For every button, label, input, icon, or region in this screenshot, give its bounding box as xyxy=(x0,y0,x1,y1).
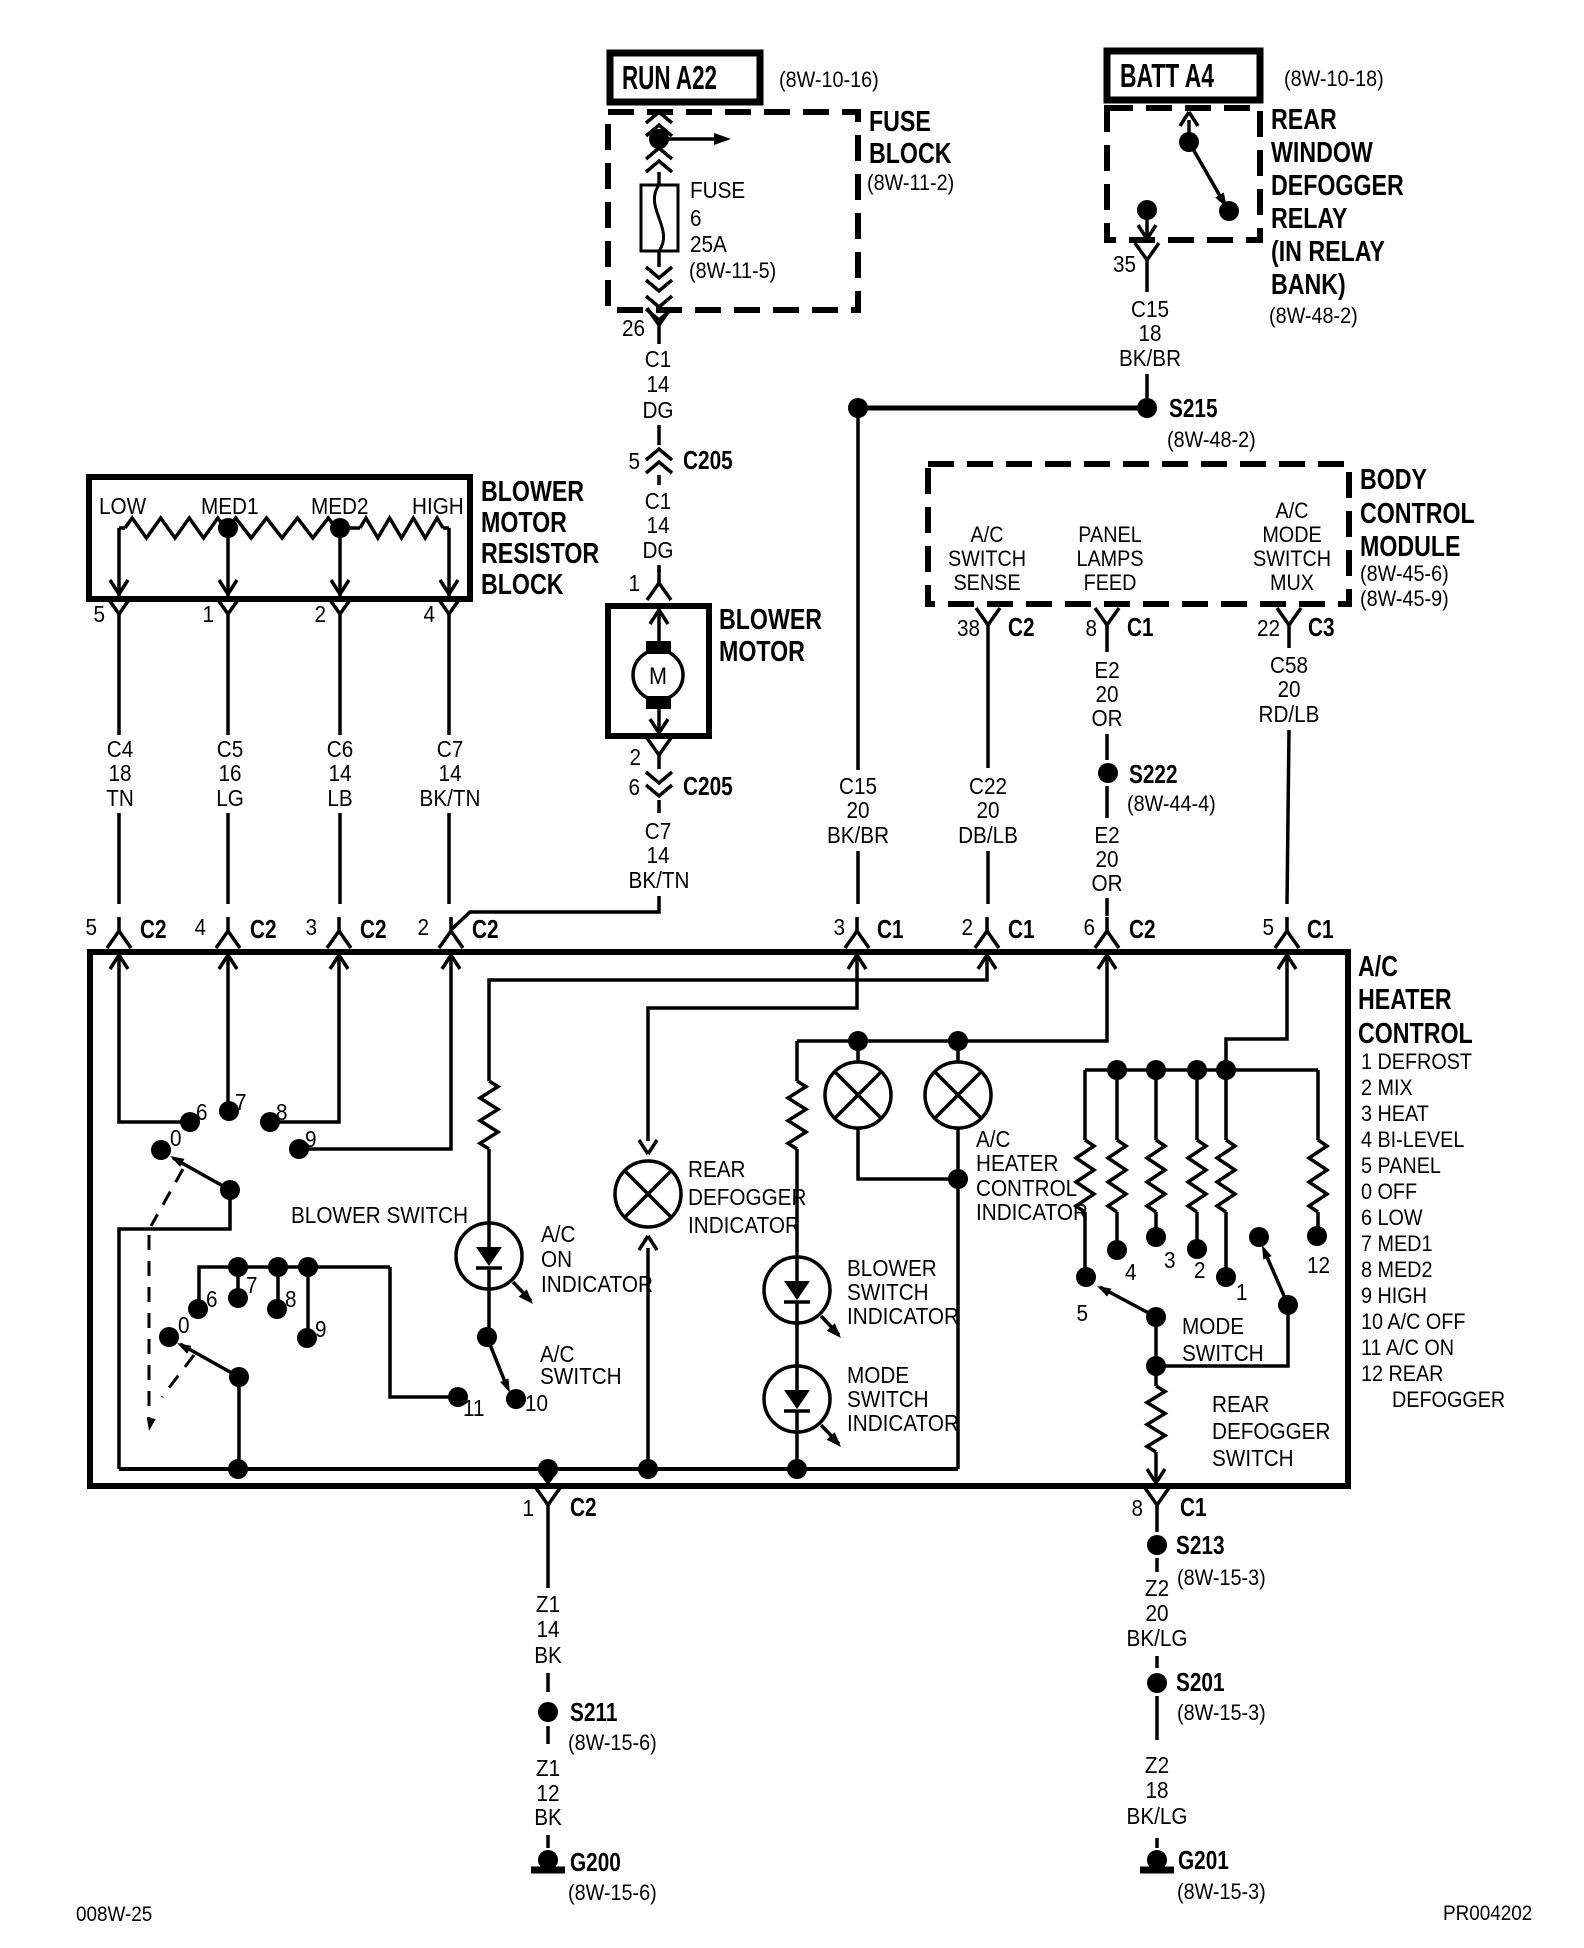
svg-text:S201: S201 xyxy=(1176,1668,1225,1697)
lamp rear defogger indicator left xyxy=(825,1062,891,1128)
svg-text:HEATER: HEATER xyxy=(976,1150,1058,1176)
svg-text:14: 14 xyxy=(646,512,669,538)
stub to contact 7 lower xyxy=(236,1267,240,1292)
contact 5 xyxy=(1076,1267,1096,1287)
wire to contact 1 xyxy=(1224,1212,1228,1277)
wire S215 bus xyxy=(858,406,1147,411)
svg-text:6 LOW: 6 LOW xyxy=(1361,1206,1423,1230)
svg-text:(8W-45-9): (8W-45-9) xyxy=(1360,587,1449,611)
svg-text:A/C: A/C xyxy=(976,1126,1011,1152)
svg-text:INDICATOR: INDICATOR xyxy=(976,1199,1088,1225)
fuse 6 25A xyxy=(641,185,678,251)
wire pin5 C2 to contact 6 upper xyxy=(119,975,181,1122)
svg-text:10 A/C OFF: 10 A/C OFF xyxy=(1361,1310,1465,1334)
svg-text:8: 8 xyxy=(1131,1495,1143,1521)
svg-text:(8W-15-3): (8W-15-3) xyxy=(1177,1880,1266,1904)
ground G201 xyxy=(1140,1867,1174,1874)
wire lamp1 bottom to lamp2 wire xyxy=(858,1128,949,1179)
svg-text:LOW: LOW xyxy=(99,493,146,519)
wire to contact 5 xyxy=(1083,1212,1087,1277)
svg-text:RD/LB: RD/LB xyxy=(1259,701,1320,727)
wire feed to lamp2 xyxy=(956,1041,960,1062)
pole 2 contact bus xyxy=(199,1267,390,1303)
resistor MED1-MED2 xyxy=(228,518,336,538)
contact 11 xyxy=(448,1387,468,1407)
contact 9 upper xyxy=(289,1139,309,1159)
svg-text:9 HIGH: 9 HIGH xyxy=(1361,1284,1427,1308)
mode switch pivot xyxy=(1146,1307,1166,1327)
mode resistor bus xyxy=(1085,1068,1318,1072)
svg-text:C2: C2 xyxy=(250,915,277,944)
svg-text:(8W-15-3): (8W-15-3) xyxy=(1177,1701,1266,1725)
svg-text:1: 1 xyxy=(1236,1279,1248,1305)
svg-text:REAR: REAR xyxy=(1271,102,1337,135)
svg-text:7 MED1: 7 MED1 xyxy=(1361,1232,1432,1256)
svg-text:20: 20 xyxy=(846,797,869,823)
node pole2 bus b xyxy=(268,1257,288,1277)
contact 8 upper xyxy=(260,1112,280,1132)
svg-text:20: 20 xyxy=(1277,676,1300,702)
wire pin3 C1 to rear defogger indicator xyxy=(648,975,857,1141)
connector chevrons fuse block exit xyxy=(646,267,672,278)
wire junction to rear defogger resistor xyxy=(1154,1366,1158,1386)
wire indicator to bottom bus xyxy=(646,1248,650,1469)
svg-text:C1: C1 xyxy=(1008,915,1035,944)
svg-text:SWITCH: SWITCH xyxy=(847,1386,929,1412)
fuse block dashed outline xyxy=(608,112,858,310)
svg-text:(8W-15-6): (8W-15-6) xyxy=(568,1881,657,1905)
svg-text:SENSE: SENSE xyxy=(953,571,1020,595)
connector chevron below indicator xyxy=(639,1236,648,1250)
resistor LOW-MED1 xyxy=(119,526,125,530)
svg-text:BK: BK xyxy=(534,1804,562,1830)
svg-text:C2: C2 xyxy=(472,915,499,944)
junction node at left of S215 bus xyxy=(848,398,868,418)
blower motor resistor block box xyxy=(89,477,470,599)
svg-text:1 DEFROST: 1 DEFROST xyxy=(1361,1050,1472,1074)
svg-text:BK/BR: BK/BR xyxy=(827,822,889,848)
svg-text:LG: LG xyxy=(216,785,244,811)
svg-text:MUX: MUX xyxy=(1270,571,1314,595)
svg-text:BK/LG: BK/LG xyxy=(1127,1625,1188,1651)
svg-text:(8W-15-3): (8W-15-3) xyxy=(1177,1566,1266,1590)
wire feed to lamp1 xyxy=(856,1041,860,1062)
wire to contact 4 xyxy=(1115,1212,1119,1250)
wire lamp bus to indicator resistor xyxy=(795,1041,799,1081)
contact 4 xyxy=(1107,1240,1127,1260)
node LED chain on bottom bus xyxy=(787,1459,807,1479)
svg-text:8: 8 xyxy=(1085,615,1097,641)
svg-text:1: 1 xyxy=(522,1495,534,1521)
entry arrows at top of A/C heater control xyxy=(117,952,121,975)
svg-text:(8W-48-2): (8W-48-2) xyxy=(1269,304,1358,328)
resistor mode 1 xyxy=(1224,1070,1228,1140)
wire pole2 bus to contact 11 xyxy=(390,1267,449,1397)
svg-text:CONTROL: CONTROL xyxy=(1358,1016,1473,1049)
wire pin3 C2 to contact 8 upper xyxy=(279,975,339,1122)
contact 2 xyxy=(1187,1239,1207,1259)
svg-text:LB: LB xyxy=(327,785,352,811)
svg-text:DEFOGGER: DEFOGGER xyxy=(1271,168,1404,201)
svg-text:BLOCK: BLOCK xyxy=(869,136,951,169)
svg-text:SWITCH: SWITCH xyxy=(1182,1340,1264,1366)
svg-text:C2: C2 xyxy=(570,1493,597,1522)
wire junction to fuse xyxy=(657,172,661,185)
resistor rear defogger switch xyxy=(1147,1386,1165,1452)
svg-text:1: 1 xyxy=(202,601,214,627)
svg-text:FEED: FEED xyxy=(1084,571,1137,595)
wire mode pivot to junction xyxy=(1154,1317,1158,1366)
svg-text:BANK): BANK) xyxy=(1271,267,1346,300)
power feed BATT A4 box xyxy=(1107,51,1260,100)
svg-text:(8W-15-6): (8W-15-6) xyxy=(568,1731,657,1755)
svg-text:6: 6 xyxy=(196,1099,208,1125)
node MED2 xyxy=(330,518,350,538)
rear window defogger relay dashed outline xyxy=(1107,108,1260,240)
contact 6 lower xyxy=(188,1299,208,1319)
splice S211 xyxy=(538,1702,558,1722)
svg-text:RELAY: RELAY xyxy=(1271,201,1348,234)
junction node in fuse block with feed arrow xyxy=(649,129,669,149)
blower switch indicator LED xyxy=(764,1257,830,1323)
wire label C1 14 DG below C205 xyxy=(657,475,661,485)
svg-text:CONTROL: CONTROL xyxy=(976,1175,1077,1201)
svg-text:18: 18 xyxy=(108,760,131,786)
svg-text:4: 4 xyxy=(1125,1259,1137,1285)
svg-text:REAR: REAR xyxy=(1212,1391,1270,1417)
contact 9 lower xyxy=(297,1328,317,1348)
wire mode indicator to bottom bus xyxy=(795,1432,799,1469)
svg-text:OR: OR xyxy=(1091,705,1122,731)
svg-text:BLOCK: BLOCK xyxy=(481,567,563,600)
A/C heater control ground bus xyxy=(119,1467,958,1471)
wire pin2 C2 to contact 9 upper xyxy=(308,975,451,1149)
wire label Z1 12 BK xyxy=(546,1726,550,1744)
svg-text:10: 10 xyxy=(525,1390,548,1416)
svg-text:008W-25: 008W-25 xyxy=(76,1903,152,1926)
wire label C15 20 BK/BR xyxy=(856,418,860,770)
connector chevrons at RUN A22 into fuse block xyxy=(646,112,672,123)
svg-text:C1: C1 xyxy=(1307,915,1334,944)
svg-text:A/C: A/C xyxy=(971,523,1004,547)
svg-text:14: 14 xyxy=(646,371,669,397)
svg-text:C22: C22 xyxy=(969,773,1007,799)
svg-text:7: 7 xyxy=(246,1272,258,1298)
wire label C6 14 LB xyxy=(338,628,342,735)
svg-text:12 REAR: 12 REAR xyxy=(1361,1362,1443,1386)
svg-text:12: 12 xyxy=(1307,1252,1330,1278)
svg-text:C4: C4 xyxy=(107,736,133,762)
blower switch pole 1 arm xyxy=(173,1158,230,1190)
svg-text:25A: 25A xyxy=(690,231,727,257)
mode switch arm xyxy=(1100,1287,1156,1317)
wire A/C mode switch mux C58 20 RD/LB xyxy=(1287,639,1291,648)
wire bus to pin1 exit xyxy=(546,1469,550,1486)
arrow into blower motor xyxy=(657,606,661,641)
svg-text:(8W-10-16): (8W-10-16) xyxy=(779,68,879,92)
svg-text:G201: G201 xyxy=(1178,1846,1229,1875)
wire E2 20 OR lower xyxy=(1105,786,1109,818)
svg-text:C2: C2 xyxy=(140,915,167,944)
svg-text:G200: G200 xyxy=(570,1848,621,1877)
pivot node pole 2 xyxy=(229,1367,249,1387)
rear defogger switch contact xyxy=(1249,1227,1269,1247)
svg-text:9: 9 xyxy=(315,1316,327,1342)
svg-text:BLOWER: BLOWER xyxy=(719,602,822,635)
svg-text:35: 35 xyxy=(1113,251,1136,277)
splice S222 xyxy=(1098,763,1118,783)
svg-text:S215: S215 xyxy=(1169,394,1218,423)
svg-text:BLOWER: BLOWER xyxy=(847,1255,937,1281)
svg-text:A/C: A/C xyxy=(1358,949,1398,982)
svg-text:SWITCH: SWITCH xyxy=(847,1279,929,1305)
splice S215 xyxy=(1137,398,1157,418)
svg-text:C1: C1 xyxy=(877,915,904,944)
wire label C1 14 DG xyxy=(657,339,661,344)
wire resistor to blower switch indicator xyxy=(795,1149,799,1257)
splice S213 xyxy=(1147,1535,1167,1555)
svg-text:C6: C6 xyxy=(327,736,353,762)
wire panel lamps feed E2 20 OR upper xyxy=(1105,639,1109,652)
svg-text:WINDOW: WINDOW xyxy=(1271,135,1373,168)
svg-text:26: 26 xyxy=(622,315,645,341)
A/C heater control box xyxy=(90,952,1348,1486)
svg-text:C1: C1 xyxy=(645,346,671,372)
wire label C7 14 BK/TN left xyxy=(447,628,451,735)
svg-text:MOTOR: MOTOR xyxy=(719,634,805,667)
relay output contact xyxy=(1137,200,1157,220)
wire pin4 C2 to contact 7 upper xyxy=(226,975,230,1103)
wire to contact 2 xyxy=(1195,1212,1199,1249)
svg-text:(8W-45-6): (8W-45-6) xyxy=(1360,562,1449,586)
svg-text:20: 20 xyxy=(976,797,999,823)
wire fuse to fuse block exit xyxy=(657,251,661,267)
body control module dashed outline xyxy=(928,464,1349,604)
svg-text:DB/LB: DB/LB xyxy=(958,822,1018,848)
svg-text:C2: C2 xyxy=(1008,613,1035,642)
svg-text:BK/TN: BK/TN xyxy=(420,785,481,811)
wire A/C switch sense C22 20 DB/LB xyxy=(986,639,990,768)
svg-text:8: 8 xyxy=(285,1286,297,1312)
stub to contact 9 lower xyxy=(306,1267,310,1332)
svg-text:SWITCH: SWITCH xyxy=(540,1363,622,1389)
svg-text:INDICATOR: INDICATOR xyxy=(541,1271,653,1297)
svg-text:14: 14 xyxy=(438,760,461,786)
contact 7 upper xyxy=(219,1101,239,1121)
svg-text:BODY: BODY xyxy=(1360,462,1427,495)
svg-text:3: 3 xyxy=(833,914,845,940)
svg-text:MODE: MODE xyxy=(1262,523,1321,547)
svg-text:1: 1 xyxy=(628,570,640,596)
svg-text:3: 3 xyxy=(305,914,317,940)
svg-text:C205: C205 xyxy=(683,772,733,801)
resistor mode 4 xyxy=(1115,1070,1119,1140)
wire pin2 C1 to A/C resistor xyxy=(489,975,987,1081)
svg-text:ON: ON xyxy=(541,1246,572,1272)
svg-text:8: 8 xyxy=(276,1099,288,1125)
rear defogger switch pivot xyxy=(1278,1295,1298,1315)
wire motor to box exit with arrow xyxy=(657,709,661,736)
svg-text:S211: S211 xyxy=(570,1698,617,1727)
resistor A/C on indicator feed xyxy=(480,1081,498,1149)
relay contact arm xyxy=(1187,120,1191,140)
svg-text:6: 6 xyxy=(628,774,640,800)
svg-text:BK/LG: BK/LG xyxy=(1127,1803,1188,1829)
svg-text:DG: DG xyxy=(642,397,673,423)
contact 6 upper xyxy=(180,1112,200,1132)
wire to contact 3 xyxy=(1154,1212,1158,1237)
svg-text:INDICATOR: INDICATOR xyxy=(847,1410,959,1436)
svg-text:HEATER: HEATER xyxy=(1358,982,1452,1015)
svg-text:MODULE: MODULE xyxy=(1360,529,1460,562)
svg-text:6: 6 xyxy=(206,1286,218,1312)
svg-text:5: 5 xyxy=(85,914,97,940)
svg-text:3 HEAT: 3 HEAT xyxy=(1361,1102,1429,1126)
svg-text:C15: C15 xyxy=(1131,296,1169,322)
wire between indicator LEDs xyxy=(795,1323,799,1366)
svg-text:MOTOR: MOTOR xyxy=(481,505,567,538)
svg-text:DEFOGGER: DEFOGGER xyxy=(1212,1418,1330,1444)
svg-text:5 PANEL: 5 PANEL xyxy=(1361,1154,1441,1178)
stub to contact 8 lower xyxy=(276,1267,280,1303)
wire label Z2 20 BK/LG xyxy=(1155,1558,1159,1572)
contact 0 upper xyxy=(151,1140,171,1160)
svg-text:S222: S222 xyxy=(1129,760,1178,789)
contact 10 xyxy=(506,1389,526,1409)
svg-text:5: 5 xyxy=(93,601,105,627)
svg-text:22: 22 xyxy=(1257,615,1280,641)
svg-text:E2: E2 xyxy=(1094,657,1119,683)
svg-text:MED2: MED2 xyxy=(311,493,369,519)
svg-text:BLOWER: BLOWER xyxy=(481,474,584,507)
svg-text:C1: C1 xyxy=(645,488,671,514)
wire label C15 18 BK/BR xyxy=(1145,274,1149,292)
svg-text:4: 4 xyxy=(194,914,206,940)
svg-text:DEFOGGER: DEFOGGER xyxy=(1392,1388,1505,1412)
svg-text:C5: C5 xyxy=(217,736,243,762)
svg-text:5: 5 xyxy=(1076,1300,1088,1326)
svg-text:0: 0 xyxy=(170,1125,182,1151)
blower switch pole 2 arm xyxy=(180,1344,239,1377)
wire taps to block pins xyxy=(117,528,121,596)
svg-text:OR: OR xyxy=(1091,870,1122,896)
svg-text:14: 14 xyxy=(646,842,669,868)
svg-text:PR004202: PR004202 xyxy=(1443,1902,1532,1925)
svg-text:C3: C3 xyxy=(1308,613,1335,642)
svg-text:2: 2 xyxy=(961,914,973,940)
svg-text:M: M xyxy=(649,662,667,689)
svg-text:C7: C7 xyxy=(645,818,671,844)
resistor indicator chain xyxy=(788,1081,806,1149)
wire rear defogger resistor to box exit xyxy=(1154,1452,1158,1486)
svg-text:0: 0 xyxy=(178,1312,190,1338)
svg-text:C1: C1 xyxy=(1127,613,1154,642)
svg-text:2 MIX: 2 MIX xyxy=(1361,1076,1413,1100)
svg-text:2: 2 xyxy=(629,744,641,770)
svg-text:4 BI-LEVEL: 4 BI-LEVEL xyxy=(1361,1128,1464,1152)
resistor MED2-HIGH xyxy=(340,526,360,530)
node pole2 bus c xyxy=(298,1257,318,1277)
svg-text:A/C: A/C xyxy=(1276,499,1309,523)
node mode bus 4 xyxy=(1216,1060,1236,1080)
svg-text:FUSE: FUSE xyxy=(690,177,745,203)
svg-text:18: 18 xyxy=(1145,1777,1168,1803)
A/C switch contact node xyxy=(477,1327,497,1347)
svg-text:7: 7 xyxy=(235,1089,247,1115)
svg-text:2: 2 xyxy=(1194,1257,1206,1283)
svg-text:4: 4 xyxy=(423,601,435,627)
node indicator on bottom bus xyxy=(638,1459,658,1479)
node MED1 xyxy=(218,518,238,538)
mode switch junction node xyxy=(1146,1356,1166,1376)
wire pole1 pivot to bottom bus xyxy=(119,1190,230,1469)
A/C ON indicator LED xyxy=(456,1223,522,1289)
svg-text:C2: C2 xyxy=(360,915,387,944)
wire pin5 C1 to mode bus xyxy=(1226,975,1287,1070)
node lamp junction xyxy=(948,1169,968,1189)
svg-text:14: 14 xyxy=(328,760,351,786)
wire LED to A/C switch xyxy=(487,1289,491,1337)
svg-text:PANEL: PANEL xyxy=(1078,523,1141,547)
svg-text:A/C: A/C xyxy=(541,1221,576,1247)
svg-text:S213: S213 xyxy=(1176,1531,1225,1560)
node mode bus 3 xyxy=(1187,1060,1207,1080)
svg-text:(IN RELAY: (IN RELAY xyxy=(1271,234,1385,267)
svg-text:INDICATOR: INDICATOR xyxy=(847,1303,959,1329)
svg-text:11 A/C ON: 11 A/C ON xyxy=(1361,1336,1454,1360)
contact 12 xyxy=(1307,1226,1327,1246)
wire blower motor return to pin 2 C2 xyxy=(452,896,659,929)
svg-text:CONTROL: CONTROL xyxy=(1360,496,1475,529)
wire pole2 pivot to bottom bus xyxy=(237,1377,241,1469)
wire junction to rear defogger switch arm xyxy=(1156,1305,1288,1366)
svg-text:C205: C205 xyxy=(683,446,733,475)
svg-text:16: 16 xyxy=(218,760,241,786)
svg-text:BK/BR: BK/BR xyxy=(1119,345,1181,371)
wire label C7 14 BK/TN xyxy=(657,800,661,813)
splice S201 xyxy=(1147,1673,1167,1693)
svg-text:11: 11 xyxy=(463,1395,484,1421)
svg-text:2: 2 xyxy=(314,601,326,627)
svg-text:E2: E2 xyxy=(1094,822,1119,848)
svg-text:(8W-11-2): (8W-11-2) xyxy=(867,171,954,195)
svg-text:DG: DG xyxy=(642,537,673,563)
mechanical linkage dashed xyxy=(151,1169,183,1226)
svg-text:BLOWER SWITCH: BLOWER SWITCH xyxy=(291,1202,468,1228)
svg-text:14: 14 xyxy=(536,1616,559,1642)
wire resistor to A/C ON indicator xyxy=(487,1149,491,1223)
contact 0 lower xyxy=(159,1327,179,1347)
svg-text:MODE: MODE xyxy=(1182,1313,1244,1339)
rear defogger switch arm xyxy=(1264,1250,1288,1305)
node mode bus 2 xyxy=(1146,1060,1166,1080)
svg-text:3: 3 xyxy=(1164,1247,1176,1273)
svg-text:6: 6 xyxy=(690,205,702,231)
svg-text:8 MED2: 8 MED2 xyxy=(1361,1258,1432,1282)
node pin1 exit on bus xyxy=(538,1459,558,1479)
wire to splice S213 xyxy=(1155,1519,1159,1532)
node lamp2 feed xyxy=(948,1031,968,1051)
resistor mode 2 xyxy=(1195,1070,1199,1140)
motor M1 symbol xyxy=(646,641,671,654)
wire pin6 C2 to lamp feed bus xyxy=(797,975,1107,1041)
contact 8 lower xyxy=(267,1299,287,1319)
pivot node pole 1 xyxy=(220,1180,240,1200)
wire to contact 12 xyxy=(1316,1212,1320,1236)
svg-text:(8W-44-4): (8W-44-4) xyxy=(1127,792,1216,816)
svg-text:RESISTOR: RESISTOR xyxy=(481,536,599,569)
A/C switch arm xyxy=(487,1337,507,1387)
